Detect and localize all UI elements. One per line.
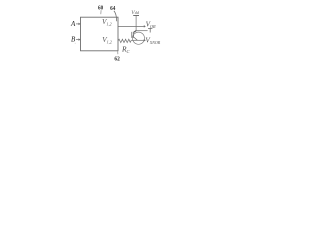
transistor emitter	[134, 37, 138, 40]
resistor RC zigzag	[118, 39, 131, 42]
arrowhead OR output	[144, 25, 146, 28]
svg-text:B: B	[71, 35, 76, 43]
speck	[75, 43, 76, 44]
box U60 (logic network)	[81, 17, 119, 51]
transistor Q62 base bars	[132, 32, 134, 38]
svg-text:V1,2: V1,2	[102, 18, 112, 28]
leader for 62	[117, 51, 119, 54]
transistor envelope circle	[133, 32, 145, 44]
wire emitter line to output	[131, 39, 144, 41]
wire collector to T rail	[136, 30, 148, 32]
svg-text:RC: RC	[121, 44, 130, 54]
svg-text:VOR: VOR	[146, 20, 156, 28]
leader for 60	[100, 10, 102, 14]
wire OR output	[118, 25, 144, 27]
arrowhead B	[79, 38, 81, 41]
transistor collector bend	[134, 31, 136, 33]
arrowhead A	[79, 23, 81, 26]
svg-text:V1,2: V1,2	[102, 36, 112, 46]
wire B input	[76, 39, 81, 41]
svg-text:A: A	[70, 20, 76, 28]
arrowhead XNOR output	[144, 39, 146, 42]
svg-text:VXNOR: VXNOR	[145, 36, 160, 45]
supply rail bar	[133, 15, 139, 17]
svg-text:60: 60	[98, 5, 103, 12]
wire supply to collector	[135, 16, 137, 31]
svg-text:62: 62	[114, 55, 120, 62]
T rail symbol	[148, 28, 152, 32]
wire A input	[76, 23, 81, 25]
leader for 64	[114, 11, 117, 21]
